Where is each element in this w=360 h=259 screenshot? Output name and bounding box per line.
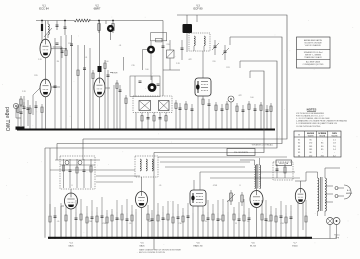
- svg-text:8: 8: [71, 185, 72, 187]
- svg-text:220: 220: [212, 61, 215, 63]
- svg-text:Mains: Mains: [334, 235, 339, 237]
- svg-text:85: 85: [310, 139, 312, 141]
- svg-text:470K: 470K: [88, 221, 93, 223]
- svg-text:470K: 470K: [213, 185, 218, 187]
- svg-text:.01: .01: [85, 57, 88, 59]
- svg-text:1M: 1M: [163, 219, 166, 221]
- svg-text:1M: 1M: [247, 221, 250, 223]
- svg-text:V3: V3: [298, 146, 300, 148]
- svg-text:2- MEASURED VOLTS ARE FROM C: 2- MEASURED VOLTS ARE FROM CHASSIS FOR R…: [296, 120, 348, 123]
- svg-text:V2: V2: [298, 143, 300, 145]
- svg-text:R60: R60: [148, 221, 151, 223]
- svg-text:TRANS SEC BLACK: TRANS SEC BLACK: [304, 56, 322, 59]
- svg-text:185: 185: [309, 149, 312, 151]
- svg-text:80: 80: [310, 152, 312, 154]
- svg-text:FOR VOLTAGES 20V TO 1.5 X V: FOR VOLTAGES 20V TO 1.5 X V: [296, 114, 324, 117]
- svg-text:VOLTS: VOLTS: [319, 136, 326, 138]
- svg-text:1M: 1M: [219, 219, 222, 221]
- svg-text:ANTI-CLOCKWISE POSITION: ANTI-CLOCKWISE POSITION: [139, 251, 165, 254]
- svg-text:C35: C35: [131, 65, 134, 67]
- svg-text:VOLTS SHOULD BE MEASURED: VOLTS SHOULD BE MEASURED: [296, 112, 325, 115]
- svg-text:EL 84: EL 84: [250, 245, 256, 247]
- svg-text:WAVE CHANGE SWITCH SHOWN IN EX: WAVE CHANGE SWITCH SHOWN IN EXTREME: [139, 249, 182, 252]
- svg-text:EABC 80: EABC 80: [194, 244, 204, 247]
- svg-text:A M OF CHASSIS: A M OF CHASSIS: [305, 44, 321, 47]
- svg-text:3- CONDENSERS USED IN QUANTIT: 3- CONDENSERS USED IN QUANTITY ARE X20: [296, 122, 337, 125]
- svg-text:V5: V5: [298, 152, 300, 154]
- svg-text:ECF 80: ECF 80: [193, 7, 203, 11]
- svg-text:R15: R15: [34, 75, 37, 77]
- svg-text:* SPEAKER & EXTRA ALL: * SPEAKER & EXTRA ALL: [251, 144, 274, 147]
- svg-text:R19: R19: [68, 43, 71, 45]
- svg-text:.01: .01: [119, 45, 122, 47]
- svg-text:6BR7: 6BR7: [94, 7, 101, 11]
- svg-text:25: 25: [205, 221, 207, 223]
- svg-text:1.4: 1.4: [333, 149, 336, 151]
- svg-text:.05: .05: [159, 185, 162, 187]
- svg-text:6BJ6: 6BJ6: [69, 245, 75, 247]
- svg-text:1 - 20 VOLT RANGE, USE OF 40: 1 - 20 VOLT RANGE, USE OF 400 OHM: [296, 117, 330, 120]
- svg-text:6.2: 6.2: [333, 155, 336, 157]
- svg-text:25: 25: [235, 223, 237, 225]
- svg-text:100: 100: [145, 69, 148, 71]
- svg-text:MAINS: MAINS: [346, 192, 353, 195]
- svg-text:R4: R4: [57, 61, 59, 63]
- svg-text:ALL NEW CANS: ALL NEW CANS: [306, 61, 321, 64]
- svg-text:1.8: 1.8: [333, 143, 336, 145]
- svg-text:170: 170: [309, 143, 312, 145]
- svg-text:P.U. SOCKETS: P.U. SOCKETS: [234, 152, 248, 154]
- svg-text:2.1: 2.1: [333, 139, 336, 141]
- svg-text:Plug: Plug: [335, 237, 339, 239]
- svg-text:.05: .05: [57, 221, 60, 223]
- svg-text:C58: C58: [280, 223, 283, 225]
- svg-text:6BJ6: 6BJ6: [140, 245, 146, 247]
- svg-text:250: 250: [321, 155, 324, 157]
- svg-text:85: 85: [321, 143, 323, 145]
- svg-text:C53: C53: [266, 221, 269, 223]
- svg-text:ELECTRA: ELECTRA: [279, 162, 288, 165]
- svg-text:V1: V1: [298, 139, 300, 141]
- svg-text:C55: C55: [116, 219, 119, 221]
- svg-text:A.C.: A.C.: [347, 189, 351, 192]
- svg-text:VOLTS: VOLTS: [332, 136, 339, 138]
- svg-text:100: 100: [105, 61, 108, 63]
- svg-text:SPEAKER PLUG Red: SPEAKER PLUG Red: [304, 51, 323, 54]
- svg-text:C36: C36: [178, 223, 181, 225]
- svg-text:page: page: [4, 107, 10, 118]
- svg-text:165: 165: [309, 146, 312, 148]
- svg-text:V.H.F.: V.H.F.: [112, 73, 118, 75]
- svg-text:ECC 84: ECC 84: [39, 7, 49, 11]
- svg-text:100: 100: [250, 97, 253, 99]
- svg-text:CLOSE PHYSICAL TESTING: CLOSE PHYSICAL TESTING: [296, 125, 321, 128]
- svg-text:V4: V4: [298, 149, 300, 151]
- svg-text:R11: R11: [226, 67, 229, 69]
- svg-text:470K: 470K: [102, 223, 107, 225]
- svg-text:85: 85: [321, 149, 323, 151]
- svg-text:250: 250: [309, 155, 312, 157]
- svg-text:CONDENSER QUOTED: CONDENSER QUOTED: [303, 64, 324, 66]
- svg-text:V6: V6: [298, 155, 300, 157]
- svg-text:VOLTS: VOLTS: [308, 136, 315, 138]
- svg-text:TWO: TWO: [4, 120, 10, 132]
- svg-text:NOTES: NOTES: [307, 108, 317, 112]
- svg-text:220: 220: [166, 44, 169, 46]
- svg-text:80: 80: [321, 146, 323, 148]
- svg-text:AERIAL AND EARTH: AERIAL AND EARTH: [304, 39, 323, 42]
- svg-text:.05: .05: [129, 223, 132, 225]
- svg-text:EZ40: EZ40: [292, 245, 298, 247]
- svg-text:8: 8: [239, 185, 240, 187]
